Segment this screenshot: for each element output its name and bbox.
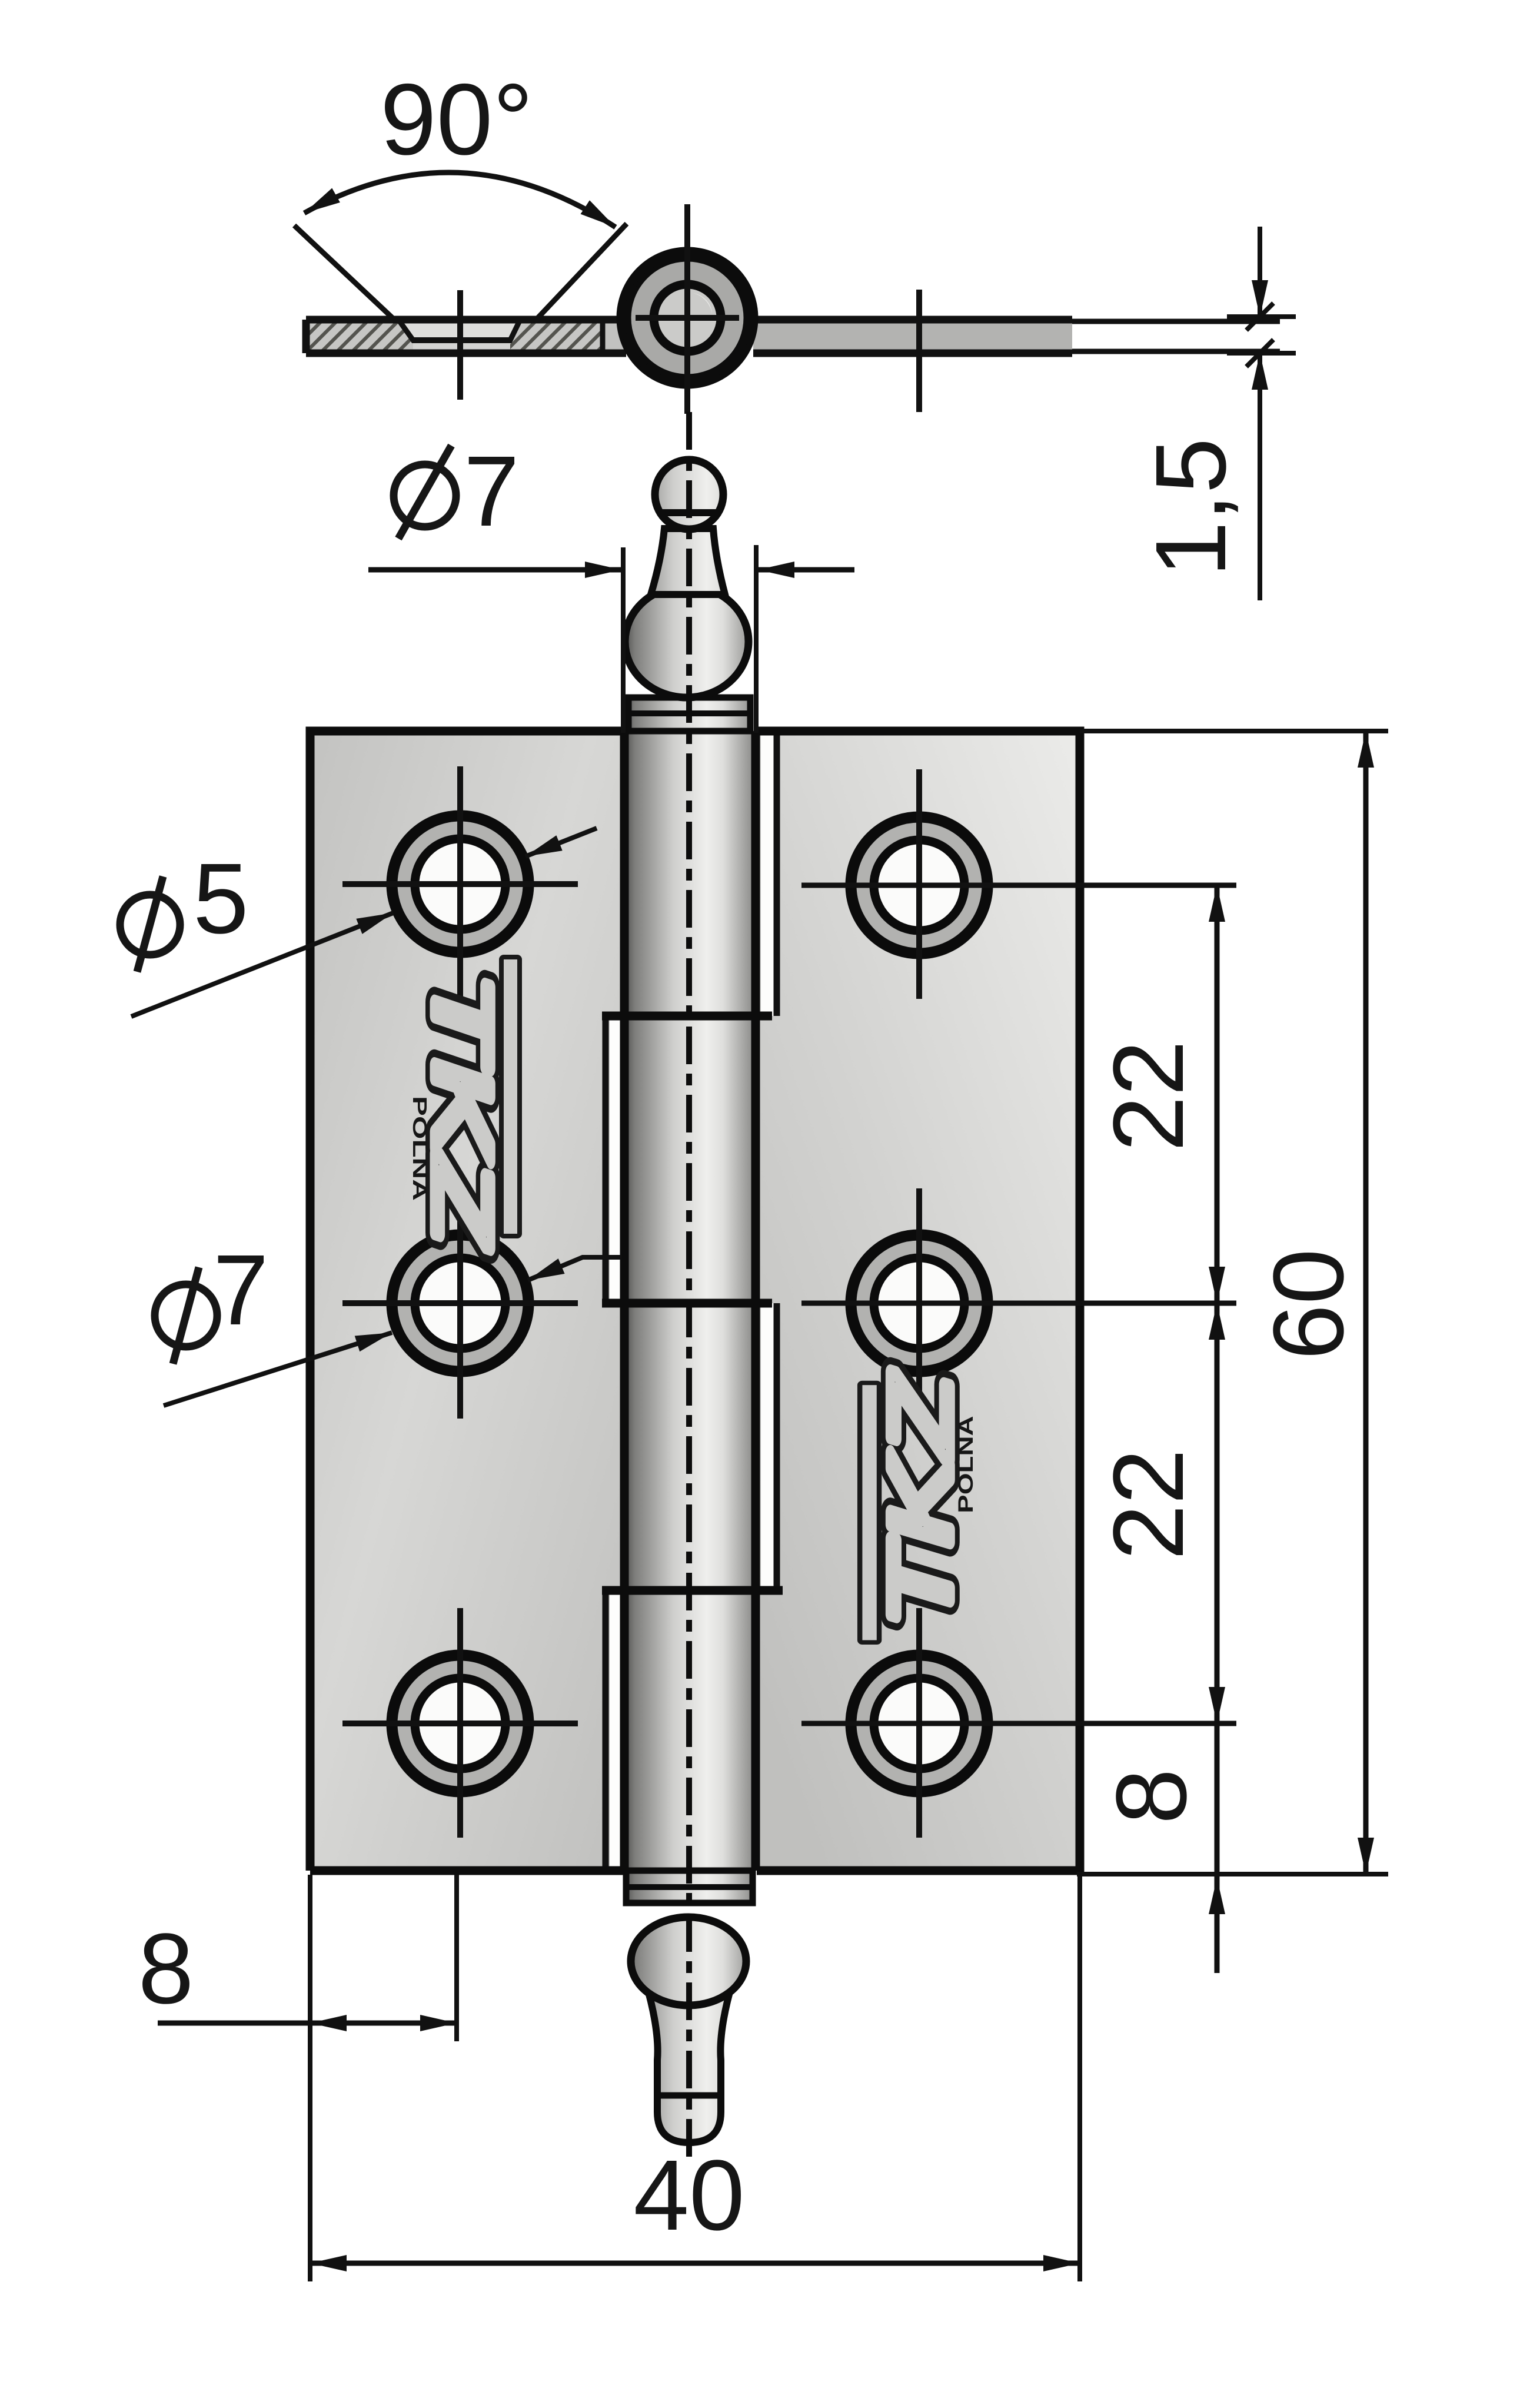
svg-text:90°: 90° — [380, 63, 533, 176]
knuckle joint line 3 — [602, 1586, 783, 1595]
bottom extension lines — [308, 1875, 312, 2281]
leaf edge sliver near barrel — [603, 320, 626, 353]
left leaf plate — [310, 731, 624, 1871]
screw hole top-right — [801, 769, 1236, 999]
clearance gap left of barrel (sections 2 and 4) — [610, 1016, 620, 1303]
dim 1,5 extension ticks — [1227, 314, 1296, 319]
clearance gap right of barrel (sections 1 and 3) — [761, 735, 774, 1016]
barrel outer edges — [620, 731, 629, 1871]
right side extension lines — [1080, 729, 1388, 733]
label dia7 hole with leader — [155, 1267, 217, 1364]
svg-text:5: 5 — [193, 843, 249, 955]
pin centreline (dash-dot) — [686, 412, 692, 2157]
svg-text:7: 7 — [213, 1234, 269, 1346]
hole centre tick, right leaf top view — [916, 290, 922, 412]
svg-text:1,5: 1,5 — [1135, 438, 1247, 577]
label dia5 with leader — [120, 876, 180, 972]
svg-text:60: 60 — [1253, 1248, 1365, 1360]
barrel tube — [621, 731, 759, 1871]
countersink cutout in section — [398, 320, 520, 340]
leaf section (hatched), top view left — [306, 320, 603, 353]
chain dimension line 22/22/8 — [1215, 885, 1220, 1303]
dim 1,5 leader lines with arrows — [1258, 227, 1262, 317]
90-degree arc with arrows — [304, 172, 616, 227]
bottom finial taper and knob — [646, 1984, 732, 2143]
barrel knuckle, top view (concentric) — [624, 254, 751, 381]
right leaf outline — [757, 731, 1080, 1871]
top finial ball — [625, 586, 749, 698]
left leaf inner edge line — [603, 1016, 609, 1303]
bottom finial collar — [626, 1871, 753, 1903]
svg-text:8: 8 — [138, 1913, 194, 2025]
screw hole bottom-left — [342, 1608, 578, 1838]
svg-text:8: 8 — [1096, 1769, 1208, 1825]
top finial collar — [628, 698, 750, 731]
TKZ Polna logo, right leaf (rotated 90ccw) — [860, 1371, 977, 1643]
screw hole top-left — [342, 766, 578, 999]
opening angle legs — [294, 225, 393, 318]
overall width dimension 40 — [310, 2261, 1080, 2266]
top finial knob — [655, 460, 723, 529]
svg-text:7: 7 — [464, 436, 520, 547]
svg-text:22: 22 — [1093, 1040, 1205, 1151]
TKZ Polna logo, left leaf (rotated 90cw) — [409, 957, 520, 1249]
svg-text:POLNA: POLNA — [409, 1096, 431, 1201]
bottom finial ball — [631, 1917, 746, 2005]
right leaf plate — [757, 731, 1080, 1871]
dim 8 bottom-left — [158, 2021, 310, 2026]
dia7 pin: dimension line with arrows — [368, 567, 621, 573]
leaf plate outline, top view — [306, 320, 1072, 353]
thin free-end outline of leaf — [1072, 319, 1280, 324]
screw hole mid-left — [342, 1188, 578, 1419]
knuckle joint line 1 — [602, 1012, 772, 1021]
barrel centrelines, top view — [684, 204, 690, 414]
dim 1,5 oblique ticks — [1246, 303, 1273, 330]
dia7 pin: extension lines — [621, 547, 626, 733]
label dia7 pin — [394, 446, 456, 539]
top finial neck — [651, 529, 725, 594]
svg-text:POLNA: POLNA — [954, 1416, 977, 1513]
screw hole bottom-right — [801, 1608, 1236, 1838]
right leaf bar, top view — [753, 320, 1072, 353]
svg-text:40: 40 — [633, 2140, 744, 2251]
right leaf inner edge line — [774, 735, 780, 1016]
knuckle joint line 2 — [602, 1299, 772, 1308]
svg-text:22: 22 — [1093, 1449, 1205, 1560]
overall height dimension 60 — [1363, 731, 1369, 1874]
screw hole mid-right — [801, 1188, 1236, 1419]
left leaf outline — [310, 731, 624, 1871]
hole centre tick, left leaf top view — [457, 290, 463, 400]
